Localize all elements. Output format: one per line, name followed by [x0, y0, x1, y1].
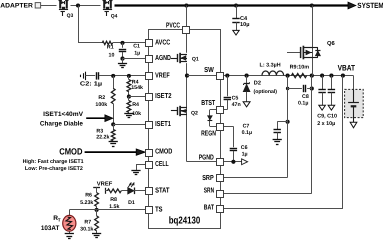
- svg-text:47n: 47n: [232, 102, 241, 108]
- svg-text:SRP: SRP: [202, 173, 214, 182]
- svg-text:103AT: 103AT: [41, 225, 60, 232]
- svg-text:(optional): (optional): [254, 89, 278, 95]
- svg-text:CELL: CELL: [155, 159, 169, 168]
- svg-text:154k: 154k: [131, 85, 143, 91]
- svg-text:ISET2: ISET2: [155, 91, 171, 100]
- svg-text:T: T: [58, 218, 61, 223]
- svg-text:R8: R8: [110, 197, 117, 203]
- svg-text:R3: R3: [96, 128, 103, 134]
- svg-text:C7: C7: [243, 123, 250, 129]
- svg-text:1µ: 1µ: [242, 152, 248, 158]
- svg-text:TS: TS: [155, 205, 163, 214]
- svg-text:BAT: BAT: [204, 202, 215, 211]
- svg-text:Q6: Q6: [327, 40, 336, 47]
- svg-text:C9, C10: C9, C10: [317, 114, 337, 120]
- svg-text:BTST: BTST: [201, 98, 215, 107]
- svg-text:C1: C1: [133, 44, 140, 50]
- svg-text:Low: Pre-charge ISET2: Low: Pre-charge ISET2: [25, 166, 83, 172]
- svg-text:R4: R4: [132, 102, 139, 108]
- svg-text:SRN: SRN: [204, 185, 214, 194]
- svg-text:VREF: VREF: [97, 182, 113, 188]
- svg-text:ISET1: ISET1: [155, 119, 171, 128]
- svg-text:1µ: 1µ: [134, 51, 140, 57]
- svg-text:CMOD: CMOD: [155, 147, 172, 156]
- svg-text:VBAT: VBAT: [338, 64, 355, 73]
- svg-text:C5: C5: [232, 96, 239, 102]
- svg-text:R6: R6: [85, 193, 92, 199]
- svg-text:Q2: Q2: [191, 110, 198, 116]
- svg-text:0.1µ: 0.1µ: [242, 130, 252, 136]
- svg-text:Q1: Q1: [192, 56, 199, 62]
- svg-text:bq24130: bq24130: [169, 215, 201, 226]
- svg-text:D2: D2: [254, 80, 261, 86]
- svg-text:100k: 100k: [95, 102, 107, 108]
- svg-text:R7: R7: [84, 220, 91, 226]
- svg-text:AGND: AGND: [155, 53, 171, 62]
- svg-text:30.1k: 30.1k: [80, 227, 93, 233]
- svg-text:R1: R1: [107, 45, 114, 51]
- svg-text:SYSTEM: SYSTEM: [357, 1, 383, 10]
- svg-text:Charge Diable: Charge Diable: [40, 120, 84, 127]
- svg-text:ISET1<40mV: ISET1<40mV: [43, 111, 84, 118]
- svg-text:5.23k: 5.23k: [80, 200, 93, 206]
- svg-text:AVCC: AVCC: [155, 38, 170, 47]
- svg-text:REGN: REGN: [201, 128, 216, 137]
- svg-text:PGND: PGND: [199, 153, 214, 162]
- svg-text:CMOD: CMOD: [59, 147, 83, 157]
- svg-text:C2: 1µ: C2: 1µ: [80, 81, 103, 88]
- svg-text:VREF: VREF: [155, 71, 170, 80]
- svg-text:C8: C8: [302, 94, 309, 100]
- svg-text:L: 3.3µH: L: 3.3µH: [260, 63, 281, 69]
- svg-text:R2: R2: [98, 95, 105, 101]
- svg-text:10: 10: [109, 52, 115, 58]
- svg-text:SW: SW: [204, 65, 214, 74]
- svg-text:PVCC: PVCC: [166, 20, 180, 29]
- svg-text:2 x 10µ: 2 x 10µ: [317, 121, 335, 127]
- svg-text:ADAPTER: ADAPTER: [0, 2, 33, 9]
- svg-text:0.1µ: 0.1µ: [298, 101, 308, 107]
- svg-text:R9:10m: R9:10m: [290, 64, 310, 70]
- svg-text:D1: D1: [128, 200, 135, 206]
- svg-text:10k: 10k: [132, 111, 141, 117]
- svg-text:C6: C6: [241, 145, 248, 151]
- svg-text:10µ: 10µ: [240, 22, 249, 28]
- svg-text:Q4: Q4: [111, 14, 118, 20]
- svg-text:STAT: STAT: [155, 185, 170, 194]
- svg-text:22.2k: 22.2k: [96, 135, 109, 141]
- svg-text:High: Fast charge ISET1: High: Fast charge ISET1: [23, 159, 84, 165]
- svg-text:Q3: Q3: [67, 13, 74, 19]
